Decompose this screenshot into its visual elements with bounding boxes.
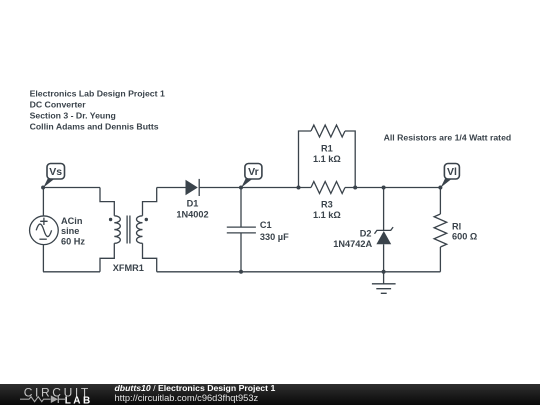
svg-text:All Resistors are 1/4 Watt rat: All Resistors are 1/4 Watt rated bbox=[384, 132, 512, 142]
svg-text:XFMR1: XFMR1 bbox=[113, 263, 144, 273]
resistor R1 loop wires bbox=[299, 131, 356, 188]
svg-text:DC Converter: DC Converter bbox=[30, 100, 87, 110]
wire bottom rail left bbox=[43, 271, 100, 273]
svg-text:600 Ω: 600 Ω bbox=[452, 232, 477, 242]
svg-text:1.1 kΩ: 1.1 kΩ bbox=[313, 154, 341, 164]
svg-text:D1: D1 bbox=[187, 199, 199, 209]
label D2 1N4742A bbox=[333, 229, 372, 249]
svg-text:sine: sine bbox=[61, 226, 79, 236]
svg-text:1N4742A: 1N4742A bbox=[333, 239, 372, 249]
transformer XFMR1 primary coil bbox=[114, 216, 120, 244]
node dot R3 right bbox=[353, 186, 357, 190]
footer bar bbox=[0, 384, 540, 405]
node Vr branch wire bbox=[240, 188, 242, 228]
footer credit line 2 bbox=[115, 394, 259, 404]
wire secondary top step bbox=[143, 188, 157, 216]
svg-text:ACin: ACin bbox=[61, 216, 83, 226]
node dot Vs bbox=[41, 186, 45, 190]
wire primary top step bbox=[100, 188, 114, 216]
svg-text:R3: R3 bbox=[321, 200, 333, 210]
svg-text:Collin Adams and Dennis Butts: Collin Adams and Dennis Butts bbox=[30, 121, 159, 131]
diode D1 bbox=[186, 179, 200, 196]
svg-text:1N4002: 1N4002 bbox=[176, 209, 208, 219]
node dot D2 top bbox=[382, 186, 386, 190]
svg-text:Vr: Vr bbox=[248, 166, 259, 178]
node dot Vl bbox=[438, 186, 442, 190]
label D1 1N4002 bbox=[176, 199, 208, 220]
transformer phasing dots bbox=[109, 218, 112, 221]
wire secondary bottom step bbox=[143, 243, 157, 271]
circuitlab logo bbox=[0, 384, 110, 405]
svg-text:D2: D2 bbox=[360, 229, 372, 239]
resistor Rl bbox=[434, 214, 447, 247]
node dot R3 left bbox=[297, 186, 301, 190]
resistor R3 bbox=[311, 182, 345, 194]
svg-text:LAB: LAB bbox=[65, 396, 93, 405]
svg-text:Section 3 - Dr. Yeung: Section 3 - Dr. Yeung bbox=[30, 110, 116, 120]
svg-text:R1: R1 bbox=[321, 143, 333, 153]
transformer XFMR1 secondary coil bbox=[137, 216, 143, 244]
resistor R1 bbox=[311, 125, 345, 137]
svg-text:Rl: Rl bbox=[452, 222, 461, 232]
label R3 1.1 kOhm bbox=[313, 200, 341, 221]
wire source stubs bbox=[42, 188, 44, 272]
svg-text:330 µF: 330 µF bbox=[260, 232, 289, 242]
label C1 330 uF bbox=[260, 220, 289, 242]
voltage source V1 circle bbox=[30, 216, 59, 245]
ground bbox=[372, 272, 396, 294]
wire rail xfmr to D1 bbox=[157, 187, 186, 189]
node dot C1 bottom bbox=[239, 270, 243, 274]
zener D2 branch wires bbox=[383, 188, 385, 272]
title text block bbox=[30, 89, 165, 132]
svg-text:C1: C1 bbox=[260, 220, 272, 230]
label Rl 600 Ohm bbox=[452, 222, 477, 242]
wire primary bottom step bbox=[100, 243, 114, 271]
transformer core bbox=[127, 216, 130, 244]
zener diode D2 bbox=[375, 227, 394, 244]
capacitor C1 bbox=[227, 227, 256, 272]
footer credit line 1 bbox=[115, 384, 276, 394]
wire R3 right to Vl node bbox=[345, 187, 440, 189]
resistor Rl branch wires bbox=[439, 188, 441, 272]
svg-text:Vl: Vl bbox=[447, 166, 457, 178]
svg-text:Electronics Lab Design Project: Electronics Lab Design Project 1 bbox=[30, 89, 165, 99]
svg-text:1.1 kΩ: 1.1 kΩ bbox=[313, 210, 341, 220]
svg-text:Vs: Vs bbox=[49, 166, 62, 178]
label ACin sine 60 Hz bbox=[61, 216, 85, 247]
wire bottom rail right bbox=[157, 271, 441, 273]
node label Vl bbox=[441, 164, 460, 188]
node label Vs bbox=[43, 164, 64, 188]
node label Vr bbox=[241, 164, 262, 188]
svg-text:60 Hz: 60 Hz bbox=[61, 236, 85, 246]
label R1 1.1 kOhm bbox=[313, 143, 341, 164]
node dot Vr bbox=[239, 186, 243, 190]
node dot ground bbox=[382, 270, 386, 274]
wire top rail left (Vs node to transformer) bbox=[43, 187, 100, 189]
wire D1 to R3 left node bbox=[199, 187, 311, 189]
